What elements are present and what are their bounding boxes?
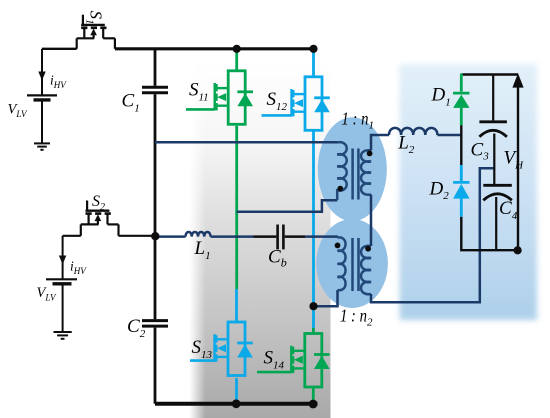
- wire: Cb to T2 primary top: [305, 235, 338, 238]
- svg-text:iHV: iHV: [70, 259, 87, 277]
- diode D1 (green): [453, 74, 469, 126]
- wire: Cb left stub (black): [254, 235, 277, 238]
- wire: S11 source run (green): [235, 126, 238, 289]
- inductor L2: [389, 128, 437, 135]
- wire: S13 source (cyan): [235, 378, 238, 404]
- wire: output top rail: [461, 73, 518, 75]
- wire: T1 secondary top to L2 (navy): [371, 135, 389, 151]
- wire: T1 primary bottom to S11/S13 node (navy): [237, 200, 338, 212]
- wire: L1 to Cb (navy section): [211, 235, 254, 238]
- wire: battery 1 lead: [41, 49, 43, 95]
- wire: battery 1 to ground: [41, 102, 43, 144]
- node: S12-S14 / T2 primary: [309, 302, 317, 310]
- T1 polarity dot (secondary, top): [367, 151, 373, 157]
- wire: D1 anode to L2 node to D2 cathode (black): [460, 125, 462, 165]
- node: bottom bus / S13: [232, 399, 241, 408]
- wire: top bus: [115, 47, 314, 50]
- wire: S13 drain run (cyan): [235, 289, 238, 322]
- transformer T2 secondary winding: [361, 246, 371, 294]
- wire: S14 gate lead: [257, 371, 292, 374]
- shaded blue highlight region (output rectifier): [400, 64, 538, 320]
- capacitor Cb: [278, 225, 284, 250]
- ground (bottom): [54, 332, 72, 339]
- wire: battery 2 lead: [62, 236, 64, 279]
- node: top bus / S12: [309, 45, 317, 53]
- shaded gray highlight region (bridge legs): [190, 62, 331, 418]
- svg-text:1 : n2: 1 : n2: [340, 306, 373, 329]
- transformer T2 primary winding: [338, 237, 346, 290]
- wire: D2 anode down to output bottom rail: [461, 217, 518, 250]
- wire: S12 gate lead: [262, 114, 292, 117]
- V_H arrow: [517, 85, 519, 250]
- wire: S14 drain stub (green): [312, 328, 315, 335]
- wire + inductor L1 + capacitor Cb run (navy): [155, 235, 186, 238]
- capacitor C3: [479, 75, 507, 185]
- wire: battery 2 to ground: [62, 285, 64, 332]
- wire: L2 to D1/D2 node: [437, 134, 461, 137]
- transistor S12 (cyan): [292, 77, 330, 131]
- wire: S11 drain (green): [235, 49, 238, 71]
- wire: T1 secondary bottom to T2 secondary top: [370, 195, 373, 247]
- transformer T2 core: [353, 238, 359, 291]
- ground (top): [34, 143, 50, 149]
- wire: T2 primary bottom to S12/S14 node (navy): [314, 290, 338, 306]
- current arrow iHV (bottom): [59, 256, 66, 265]
- transistor S13 (cyan): [215, 322, 253, 376]
- node: bottom bus / S14: [309, 400, 318, 409]
- wire: S11 gate lead: [186, 108, 215, 111]
- svg-text:S1: S1: [84, 11, 106, 25]
- node: output bottom rail / VH: [514, 246, 522, 254]
- T2 polarity dot (secondary, top): [365, 246, 371, 252]
- wire: Cb right stub (black): [285, 235, 305, 238]
- wire: S14 source (green): [312, 387, 315, 404]
- battery V_LV (bottom): [46, 279, 77, 284]
- T2 polarity dot (primary, top): [335, 243, 341, 249]
- wire: T2 secondary bottom return (navy): [371, 168, 494, 302]
- capacitor C1: [142, 49, 168, 236]
- T1 polarity dot (primary, bottom): [337, 186, 343, 192]
- current arrow iHV (top): [38, 72, 45, 81]
- svg-text:VLV: VLV: [37, 285, 58, 303]
- svg-text:C1: C1: [122, 91, 140, 115]
- capacitor C2: [142, 236, 168, 404]
- transformer T1 core: [353, 149, 359, 200]
- transformer T1 highlight ellipse: [318, 117, 387, 221]
- transistor S11 (green): [215, 71, 253, 125]
- wire: S12 source run (cyan): [312, 130, 315, 328]
- wire: C1 bottom to T1 primary top (navy): [155, 141, 338, 144]
- wire: top bus left segment: [42, 48, 77, 50]
- svg-text:1 : n1: 1 : n1: [342, 109, 375, 132]
- transformer T1 primary winding: [337, 142, 347, 200]
- inductor L1: [186, 232, 211, 237]
- wire: S12 drain (cyan): [312, 49, 315, 77]
- diode D2 (cyan): [453, 165, 469, 217]
- wire: S13 gate lead: [190, 359, 215, 362]
- node: top bus / S11: [233, 45, 241, 53]
- svg-text:iHV: iHV: [50, 73, 67, 91]
- transistor S2 (MOSFET, mid-left): [63, 201, 155, 236]
- battery V_LV (top): [27, 95, 57, 100]
- capacitor C4: [483, 185, 512, 250]
- wire: bottom bus: [155, 402, 318, 406]
- transformer T1 secondary winding: [361, 150, 371, 194]
- svg-text:VLV: VLV: [8, 102, 29, 120]
- transistor S1 (MOSFET, top-left): [77, 15, 115, 49]
- transformer T2 highlight ellipse: [316, 219, 388, 308]
- node: S2 / L1: [151, 232, 159, 240]
- transistor S14 (green): [291, 334, 329, 388]
